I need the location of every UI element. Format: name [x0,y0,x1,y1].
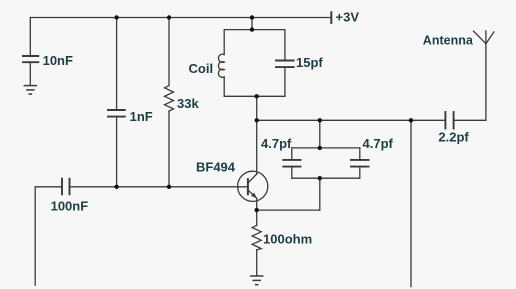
node feedback bottom rail [318,176,322,180]
wire tank bottom to collector node [256,96,258,120]
node emitter [255,208,259,212]
capacitor 1nF [108,110,125,117]
node top rail / 1nF [114,15,118,19]
svg-text:BF494: BF494 [196,159,236,174]
wire 4.7pf left bottom stub [291,167,293,179]
wire 10nF top lead [29,18,31,57]
svg-text:4.7pf: 4.7pf [363,136,394,151]
ground under 100ohm [251,276,263,285]
ground under 10nF [24,86,36,95]
svg-text:4.7pf: 4.7pf [261,136,292,151]
wire 100ohm bottom lead [256,250,258,276]
node tank top [250,27,254,31]
wire 10nF bottom lead [29,62,31,85]
wire feedback top tap [319,120,321,148]
wire tank top tap [251,18,253,30]
wire 33k bottom lead [168,111,170,187]
svg-text:1nF: 1nF [130,109,153,124]
node collector rail / feedback tap [318,118,322,122]
svg-text:10nF: 10nF [43,53,73,68]
wire tank rectangle top [224,29,285,31]
wire 4.7pf right top stub [359,148,361,160]
node collector rail / right vertical [409,118,413,122]
wire collector rail [257,119,446,121]
transistor Q1 BF494 [238,171,268,201]
coil L [218,54,224,77]
wire 1nF top lead [116,18,118,111]
wire tank rectangle bottom [224,95,285,97]
wire emitter lead [256,198,258,210]
node feedback top rail [318,146,322,150]
wire collector lead [256,120,258,174]
node top rail / 33k [167,15,171,19]
resistor 33k [165,86,174,112]
wire 100nF left lead [35,186,62,188]
wire top supply rail [30,17,331,19]
wire 4.7pf left top stub [291,148,293,160]
svg-text:Antenna: Antenna [423,34,474,48]
capacitor 10nF [23,56,38,62]
capacitor 100nF [62,179,70,195]
node base rail / 1nF [114,185,118,189]
antenna symbol [474,31,494,120]
wire emitter to feedback [257,209,320,211]
capacitor 15pf [276,61,294,68]
wire tank right lower [284,67,286,96]
svg-text:15pf: 15pf [296,55,323,70]
node base rail / 33k [167,185,171,189]
wire feedback bottom tap [319,178,321,210]
node tank bottom [255,94,259,98]
svg-text:100nF: 100nF [51,199,89,214]
wire left vertical [34,187,36,285]
wire right vertical [410,120,412,286]
wire feedback bottom rail [292,177,360,179]
wire 2.2pf to antenna [454,119,486,121]
node top rail / tank [250,15,254,19]
wire feedback top rail [292,147,360,149]
capacitor 2.2pf [445,112,453,129]
capacitor 4.7pf right [351,160,369,167]
svg-text:100ohm: 100ohm [263,231,312,246]
wire tank left lower [223,77,225,96]
capacitor 4.7pf left [283,160,300,167]
wire emitter to resistor [256,210,258,225]
svg-text:+3V: +3V [336,10,360,25]
svg-text:33k: 33k [177,96,199,111]
wire tank right upper [284,30,286,61]
node collector [255,118,259,122]
wire 1nF bottom lead [116,117,118,187]
terminal +3V bar [330,12,332,23]
wire 4.7pf right bottom stub [359,167,361,179]
svg-text:2.2pf: 2.2pf [438,130,469,145]
svg-text:Coil: Coil [189,61,214,76]
resistor 100ohm [252,225,261,250]
wire base rail [70,186,248,188]
wire 33k top lead [168,18,170,86]
wire tank left upper [223,30,225,55]
